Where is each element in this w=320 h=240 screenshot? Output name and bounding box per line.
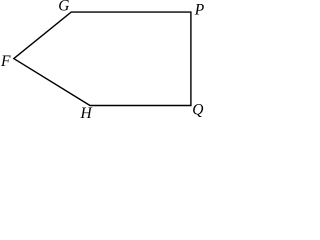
- svg-text:G: G: [58, 0, 69, 14]
- svg-text:Q: Q: [192, 101, 203, 118]
- svg-text:F: F: [0, 53, 11, 70]
- svg-text:P: P: [194, 2, 205, 19]
- svg-text:H: H: [80, 105, 93, 120]
